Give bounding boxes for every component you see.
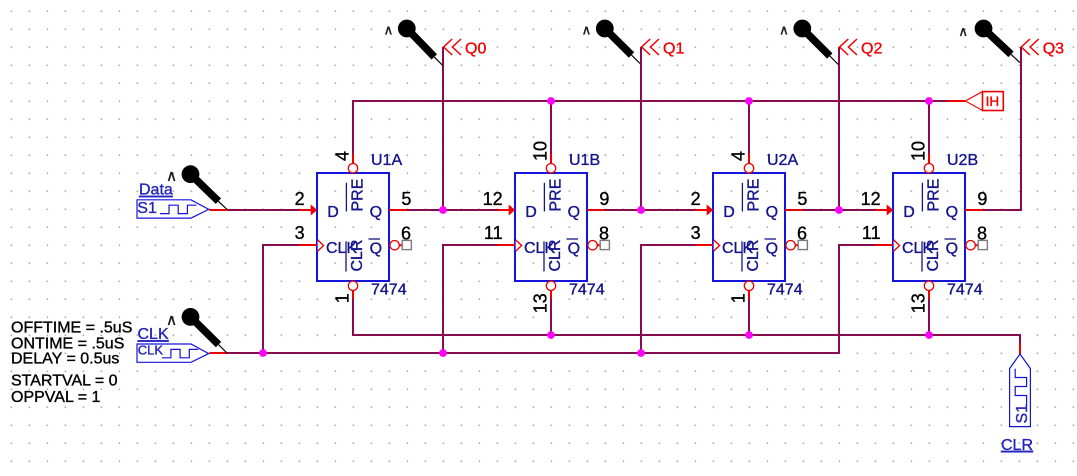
svg-text:Q: Q — [946, 204, 958, 221]
wire: PRE rail (active-low preset net) — [353, 101, 947, 154]
svg-text:CLR: CLR — [1001, 437, 1033, 454]
svg-text:D: D — [327, 204, 339, 221]
output label Q1 — [642, 39, 685, 58]
wire: Q1 probe riser — [640, 47, 642, 210]
probe on Q0 — [398, 20, 443, 66]
svg-text:13: 13 — [909, 293, 929, 313]
wire: stub to IH tag — [947, 100, 965, 102]
node Q0 junction — [439, 206, 447, 214]
svg-text:1: 1 — [729, 293, 749, 303]
svg-text:PRE: PRE — [926, 179, 943, 212]
svg-text:S1: S1 — [1014, 404, 1031, 424]
probe on CLK — [182, 308, 227, 353]
svg-text:8: 8 — [977, 224, 987, 244]
node CLR/U1B junction — [547, 331, 555, 339]
svg-text:12: 12 — [861, 189, 881, 209]
svg-text:CLR: CLR — [925, 239, 942, 271]
wire: CLK rail from CLK source to U2B pin 11 — [210, 352, 228, 354]
svg-text:6: 6 — [797, 224, 807, 244]
wire: U1A CLK drop — [263, 245, 299, 353]
svg-text:CLR: CLR — [349, 239, 366, 271]
svg-text:11: 11 — [484, 223, 503, 243]
svg-text:11: 11 — [862, 223, 881, 243]
wire: U1B CLR drop — [550, 299, 552, 335]
svg-text:∧: ∧ — [384, 23, 394, 38]
svg-text:CLR: CLR — [547, 239, 564, 271]
svg-text:PRE: PRE — [350, 179, 367, 212]
svg-text:U1A: U1A — [371, 152, 402, 169]
wire: U2A CLK drop — [641, 245, 695, 353]
svg-text:6: 6 — [401, 224, 411, 244]
svg-text:7474: 7474 — [371, 282, 407, 299]
svg-text:Q: Q — [370, 240, 382, 257]
svg-text:D: D — [525, 204, 537, 221]
svg-text:∧: ∧ — [779, 23, 789, 38]
wire: Q2 probe riser — [838, 47, 840, 210]
svg-text:4: 4 — [333, 151, 353, 161]
svg-text:∧: ∧ — [582, 23, 592, 38]
svg-text:PRE: PRE — [746, 179, 763, 212]
wire: U1B CLK drop — [443, 245, 497, 353]
svg-text:Q: Q — [766, 240, 778, 257]
wire: CLR rail from U1A pin 1 to CLR source — [353, 299, 1020, 343]
svg-text:Q: Q — [370, 204, 382, 221]
svg-text:9: 9 — [599, 189, 609, 209]
svg-text:STARTVAL = 0: STARTVAL = 0 — [11, 373, 118, 390]
wire: U2B PRE drop — [928, 101, 930, 154]
svg-text:CLR: CLR — [745, 239, 762, 271]
flip-flop U1A (7474) — [295, 151, 412, 303]
wire: U1A Q (5) to U1B D (12) — [407, 209, 497, 211]
output label Q0 — [444, 39, 487, 58]
svg-text:IH: IH — [986, 94, 1000, 109]
svg-text:∧: ∧ — [958, 24, 968, 39]
svg-text:CLK: CLK — [138, 326, 169, 343]
svg-text:D: D — [723, 204, 735, 221]
wire: Q0 probe riser — [442, 47, 444, 210]
flip-flop U2B (7474) — [861, 141, 988, 313]
pulse source S1 (Data) — [137, 200, 209, 218]
svg-text:7474: 7474 — [947, 282, 983, 299]
svg-text:Q: Q — [568, 204, 580, 221]
probe on Q1 — [596, 20, 640, 64]
node PRE/U1B junction — [547, 97, 555, 105]
node PRE/U2B junction — [925, 97, 933, 105]
svg-text:4: 4 — [729, 151, 749, 161]
svg-text:Q: Q — [946, 240, 958, 257]
node CLK/U1A junction — [259, 349, 267, 357]
svg-text:Q0: Q0 — [465, 41, 486, 58]
svg-text:1: 1 — [333, 293, 353, 303]
pulse source CLK — [137, 342, 209, 362]
probe on Data — [182, 165, 227, 209]
node Q2 junction — [835, 206, 843, 214]
node PRE/U2A junction — [745, 97, 753, 105]
svg-text:Q2: Q2 — [861, 41, 882, 58]
svg-text:13: 13 — [531, 293, 551, 313]
svg-text:S1: S1 — [137, 200, 157, 217]
svg-text:Q3: Q3 — [1043, 41, 1064, 58]
svg-text:OPPVAL = 1: OPPVAL = 1 — [11, 389, 100, 406]
wire: U2B CLR drop — [928, 299, 930, 335]
node Q1 junction — [637, 206, 645, 214]
wire: U2A PRE drop — [748, 101, 750, 154]
svg-text:7474: 7474 — [569, 282, 605, 299]
svg-text:U2B: U2B — [947, 152, 978, 169]
svg-text:9: 9 — [977, 189, 987, 209]
svg-text:3: 3 — [691, 223, 701, 243]
node CLR/U2B junction — [925, 331, 933, 339]
node CLR/U2A junction — [745, 331, 753, 339]
svg-text:5: 5 — [797, 189, 807, 209]
wire: U2A CLR drop — [748, 299, 750, 335]
svg-text:10: 10 — [531, 141, 551, 161]
svg-text:7474: 7474 — [767, 282, 803, 299]
output label Q2 — [840, 39, 883, 58]
probe on Q3 — [975, 20, 1020, 63]
node CLK/U1B junction — [439, 349, 447, 357]
svg-text:DELAY = 0.5us: DELAY = 0.5us — [11, 351, 119, 368]
svg-text:Q: Q — [766, 204, 778, 221]
pulse source S1 (CLR, vertical) — [1010, 354, 1031, 427]
svg-text:D: D — [903, 204, 915, 221]
wire: U2A Q (5) to U2B D (12) — [803, 209, 875, 211]
svg-text:PRE: PRE — [548, 179, 565, 212]
probe on Q2 — [793, 20, 838, 65]
wire: Data net from S1 to U1A pin 2 — [210, 209, 228, 211]
svg-text:10: 10 — [909, 141, 929, 161]
svg-text:3: 3 — [295, 223, 305, 243]
node CLK/U2A junction — [637, 349, 645, 357]
flip-flop U2A (7474) — [691, 151, 808, 303]
net tag IH (preset high) — [965, 92, 1003, 111]
svg-text:2: 2 — [295, 189, 305, 209]
svg-text:U2A: U2A — [767, 152, 798, 169]
svg-text:5: 5 — [401, 189, 411, 209]
svg-text:Data: Data — [139, 182, 173, 199]
wire: U2B Q (9) out to Q3 probe riser — [983, 47, 1021, 210]
svg-text:12: 12 — [483, 189, 503, 209]
svg-text:U1B: U1B — [569, 152, 600, 169]
svg-text:Q1: Q1 — [663, 41, 684, 58]
svg-text:2: 2 — [691, 189, 701, 209]
wire: U1B PRE drop — [550, 101, 552, 154]
svg-text:CLK: CLK — [138, 342, 164, 357]
output label Q3 — [1021, 39, 1064, 58]
svg-text:8: 8 — [599, 224, 609, 244]
svg-text:Q: Q — [568, 240, 580, 257]
wire: U1B Q (9) to U2A D (2) — [605, 209, 695, 211]
flip-flop U1B (7474) — [483, 141, 610, 313]
svg-text:OFFTIME = .5uS: OFFTIME = .5uS — [11, 319, 132, 336]
value label: CLK source parameters — [11, 319, 132, 406]
